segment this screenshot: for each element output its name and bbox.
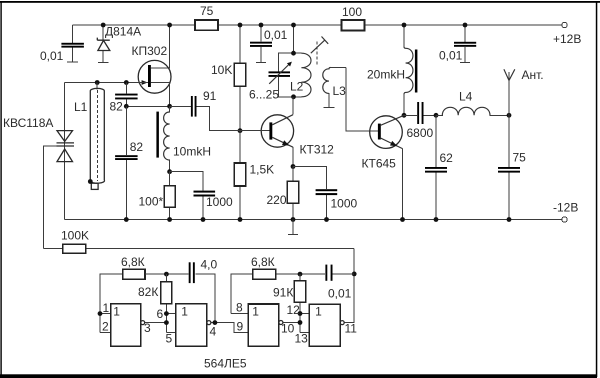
capacitor 0,01 second — [250, 25, 288, 62]
junction dot drain rail — [167, 23, 172, 28]
wire pin5 stub — [166, 332, 175, 334]
capacitor 4,0 — [189, 258, 218, 323]
gate D1.4 — [309, 304, 344, 346]
junction dot КТ645 emitter rail — [400, 217, 405, 222]
junction dot 91K top — [298, 272, 303, 277]
capacitor 91 — [170, 89, 240, 131]
wire bottom -12V rail — [65, 219, 562, 221]
resistor 6,8K second — [231, 255, 325, 314]
svg-text:9: 9 — [237, 320, 244, 334]
pin label 9 — [237, 320, 244, 334]
varicap VD КВС118А — [3, 83, 74, 220]
wire pin13 stub — [300, 331, 309, 333]
junction dot gate3 out — [298, 320, 303, 325]
border frame top — [0, 1, 600, 3]
capacitor 75 right — [498, 115, 526, 219]
pin label 4 — [210, 325, 217, 339]
junction dot 75 bottom rail — [507, 217, 512, 222]
pin label 10 — [281, 322, 295, 336]
svg-text:L1: L1 — [74, 100, 88, 114]
resistor 75 top — [195, 4, 218, 30]
svg-text:L3: L3 — [333, 84, 347, 98]
junction dot 1000-2 bottom rail — [324, 217, 329, 222]
junction dot pin12 — [298, 311, 303, 316]
svg-text:4: 4 — [210, 325, 217, 339]
svg-text:1: 1 — [181, 305, 188, 319]
resistor 82K — [138, 274, 172, 333]
transistor U1 КП302 (JFET) — [132, 44, 172, 106]
pin label 6 — [157, 307, 164, 321]
svg-text:1000: 1000 — [331, 197, 358, 211]
svg-text:564ЛЕ5: 564ЛЕ5 — [204, 357, 247, 371]
junction dot 82 tap — [124, 104, 129, 109]
wire pin1 stub — [100, 313, 111, 315]
svg-text:2: 2 — [102, 320, 109, 334]
pin label 1 — [103, 301, 110, 315]
ground stub — [288, 220, 298, 235]
capacitor 6800 — [404, 102, 436, 140]
svg-text:6...25: 6...25 — [249, 88, 279, 102]
svg-text:6,8К: 6,8К — [121, 255, 145, 269]
wire gate / tank net — [65, 82, 149, 84]
svg-text:L4: L4 — [459, 90, 473, 104]
svg-text:12: 12 — [287, 303, 301, 317]
resistor 220 — [267, 167, 299, 220]
junction dot gate2 out — [213, 320, 218, 325]
capacitor 82 upper — [110, 83, 138, 114]
junction dot emitter node — [291, 164, 296, 169]
junction dot 220 bottom rail — [291, 217, 296, 222]
junction dot base node — [238, 128, 243, 133]
capacitor 1000 second — [293, 167, 358, 220]
border frame bottom — [0, 374, 597, 378]
svg-text:1: 1 — [103, 301, 110, 315]
resistor 6,8K first — [121, 255, 189, 279]
svg-text:0,01: 0,01 — [328, 287, 352, 301]
junction dot 62 bottom rail — [434, 217, 439, 222]
junction dot pin6 — [164, 311, 169, 316]
gate D1.1 — [111, 304, 145, 347]
junction dot 82 chain bottom rail — [124, 217, 129, 222]
svg-text:КВС118А: КВС118А — [3, 116, 53, 130]
svg-text:1: 1 — [113, 305, 120, 319]
zener diode Д814А — [97, 25, 141, 63]
svg-text:10: 10 — [281, 322, 295, 336]
junction dot 20mkH rail — [402, 23, 407, 28]
svg-text:82К: 82К — [138, 285, 158, 299]
svg-text:20mkH: 20mkH — [367, 68, 405, 82]
junction dot tank top — [291, 51, 296, 56]
svg-text:Ант.: Ант. — [522, 68, 544, 82]
svg-text:100K: 100K — [61, 229, 89, 243]
terminal -12В — [553, 201, 578, 223]
pin label 13 — [295, 332, 309, 346]
gate D1.2 — [176, 304, 211, 347]
wire 82 tap to source node — [126, 105, 169, 107]
svg-text:Д814А: Д814А — [105, 25, 141, 39]
svg-text:10mkH: 10mkH — [173, 145, 211, 159]
inductor L1 (coil with core) — [74, 83, 104, 190]
wire pin2 stub — [100, 331, 111, 333]
svg-text:100: 100 — [342, 5, 362, 19]
wire gate1 output to net — [145, 322, 167, 324]
terminal +12В — [553, 22, 581, 46]
inductor 10mkH — [156, 106, 211, 171]
junction dot source node — [167, 104, 172, 109]
svg-text:3: 3 — [144, 321, 151, 335]
svg-text:L2: L2 — [290, 80, 304, 94]
border frame left — [0, 1, 1, 377]
svg-text:13: 13 — [295, 332, 309, 346]
capacitor 1000 first — [170, 172, 233, 220]
svg-text:1: 1 — [315, 305, 322, 319]
inductor L2 — [290, 53, 311, 97]
svg-text:КТ645: КТ645 — [362, 157, 397, 171]
svg-text:82: 82 — [110, 100, 124, 114]
svg-text:220: 220 — [267, 193, 287, 207]
transistor V2 КТ645 — [362, 115, 405, 219]
core adjust arrow L2/L3 — [311, 37, 328, 65]
wire pin6 stub — [166, 313, 175, 315]
pin label 11 — [345, 322, 358, 336]
inductor L4 — [436, 90, 509, 116]
svg-text:1000: 1000 — [206, 195, 233, 209]
antenna Ант. — [504, 68, 544, 115]
wire varicap tap to 100K — [44, 146, 57, 249]
svg-text:91: 91 — [203, 89, 217, 103]
svg-text:КП302: КП302 — [132, 44, 168, 58]
svg-text:4,0: 4,0 — [201, 258, 218, 272]
gate D1.3 — [248, 304, 283, 346]
capacitor C 0,01 top-left — [40, 25, 84, 63]
inductor 20mkH — [367, 25, 417, 115]
resistor 91K — [273, 274, 306, 332]
svg-text:10K: 10K — [211, 63, 232, 77]
junction dot 100* bottom rail — [167, 217, 172, 222]
junction dot 0,01 rail — [259, 23, 264, 28]
junction dot L4 right node — [507, 113, 512, 118]
svg-text:0,01: 0,01 — [264, 28, 288, 42]
resistor 1,5K — [234, 131, 274, 220]
wire gate3 output to net — [283, 322, 300, 324]
resistor 100* — [139, 172, 176, 220]
junction dot 10K rail — [238, 23, 243, 28]
svg-text:75: 75 — [513, 151, 527, 165]
svg-text:1: 1 — [252, 305, 259, 319]
junction dot L1 top — [95, 80, 100, 85]
junction dot 0,01-4 to feedback — [352, 272, 357, 277]
svg-text:5: 5 — [166, 332, 173, 346]
junction dot gate1 out — [164, 320, 169, 325]
svg-text:91К: 91К — [273, 286, 293, 300]
capacitor 62 — [425, 115, 453, 219]
svg-text:0,01: 0,01 — [40, 49, 64, 63]
svg-text:8: 8 — [236, 301, 243, 315]
svg-text:100*: 100* — [139, 195, 164, 209]
svg-text:КТ312: КТ312 — [300, 143, 335, 157]
svg-text:75: 75 — [200, 4, 214, 18]
wire tank to rail — [293, 25, 295, 53]
capacitor 0,01 third — [439, 25, 476, 63]
capacitor 0,01 fourth — [325, 265, 354, 301]
junction dot 1,5K bottom rail — [238, 217, 243, 222]
wire gate2 output node — [211, 323, 248, 333]
pin label 12 — [287, 303, 301, 317]
wire КП302 drain to rail — [151, 25, 170, 68]
junction dot tank rail — [291, 23, 296, 28]
inductor L3 — [323, 67, 346, 107]
svg-text:+12В: +12В — [553, 32, 581, 46]
junction dot 82 chain top — [124, 80, 129, 85]
junction dot 6800 right node — [434, 113, 439, 118]
svg-text:6: 6 — [157, 307, 164, 321]
pin label 8 — [236, 301, 243, 315]
junction dot 0,01-3 rail — [463, 23, 468, 28]
transistor V1 КТ312 — [240, 97, 334, 167]
pin label 3 — [144, 321, 151, 335]
junction dot pin1 — [98, 311, 103, 316]
capacitor 82 lower — [115, 106, 143, 219]
junction dot tank bottom — [291, 94, 296, 99]
pin label 5 — [166, 332, 173, 346]
junction dot 10mkH bottom node — [167, 169, 172, 174]
wire feedback from gate 4 output — [344, 249, 354, 323]
wire multivibrator input branch — [100, 274, 123, 332]
resistor 100 top — [342, 5, 365, 31]
resistor 100K — [44, 229, 355, 254]
junction dot Д814А rail — [101, 23, 106, 28]
junction dot 1000 bottom rail — [201, 217, 206, 222]
wire top +12V rail — [73, 24, 562, 26]
svg-text:0,01: 0,01 — [439, 49, 463, 63]
junction dot 82K top — [164, 272, 169, 277]
variable capacitor 6...25 — [249, 53, 294, 101]
svg-text:6,8К: 6,8К — [251, 255, 275, 269]
wire pin12 stub — [300, 313, 309, 315]
label 564ЛЕ5 — [204, 357, 247, 371]
junction dot collector node — [402, 113, 407, 118]
wire L3 to КТ645 base — [346, 67, 378, 131]
svg-text:82: 82 — [130, 140, 144, 154]
svg-text:62: 62 — [440, 151, 454, 165]
border frame right — [596, 1, 598, 377]
resistor 10K — [211, 25, 246, 131]
wire pin8 stub — [231, 313, 249, 315]
pin label 2 — [102, 320, 109, 334]
svg-text:1,5K: 1,5K — [250, 163, 275, 177]
svg-text:11: 11 — [345, 322, 358, 336]
svg-text:-12В: -12В — [553, 201, 578, 215]
svg-text:6800: 6800 — [407, 126, 434, 140]
